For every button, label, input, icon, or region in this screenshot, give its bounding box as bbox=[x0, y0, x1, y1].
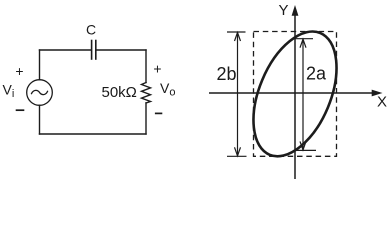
X axis bbox=[209, 92, 373, 94]
svg-text:Vo: Vo bbox=[160, 80, 175, 99]
wire bottom bbox=[40, 133, 147, 135]
svg-text:+: + bbox=[153, 61, 161, 77]
svg-text:2a: 2a bbox=[306, 64, 327, 84]
polarity - at source bbox=[16, 109, 25, 111]
AC source sine symbol bbox=[32, 90, 48, 94]
wire top-left bbox=[40, 49, 92, 51]
dashed bounding box bbox=[254, 32, 337, 157]
dimension 2a top tick bbox=[295, 38, 314, 40]
svg-text:+: + bbox=[15, 63, 23, 79]
dimension 2a bottom tick bbox=[295, 149, 317, 151]
polarity - at output bbox=[155, 112, 162, 114]
wire right upper bbox=[145, 50, 147, 83]
svg-text:50kΩ: 50kΩ bbox=[102, 84, 137, 101]
wire left upper bbox=[39, 50, 41, 80]
X axis arrowhead bbox=[372, 90, 383, 97]
resistor R 50k zigzag bbox=[142, 83, 151, 104]
dimension 2b line with arrows bbox=[227, 32, 247, 156]
dimension 2a line with arrows bbox=[295, 39, 317, 151]
Y axis arrowhead bbox=[292, 5, 299, 16]
wire top-right bbox=[96, 49, 146, 51]
wire right lower bbox=[145, 103, 147, 134]
svg-text:C: C bbox=[86, 22, 96, 38]
capacitor C plates bbox=[92, 41, 96, 60]
dimension 2b top tick bbox=[227, 31, 246, 33]
AC source Vi circle bbox=[27, 80, 53, 106]
svg-text:2b: 2b bbox=[217, 64, 237, 84]
svg-text:Vi: Vi bbox=[3, 82, 15, 101]
svg-text:X: X bbox=[377, 94, 387, 111]
svg-text:Y: Y bbox=[279, 2, 289, 19]
dimension 2b bottom tick bbox=[227, 155, 247, 157]
wire left lower bbox=[39, 105, 41, 134]
Lissajous ellipse bbox=[237, 19, 353, 168]
Y axis bbox=[294, 13, 296, 179]
